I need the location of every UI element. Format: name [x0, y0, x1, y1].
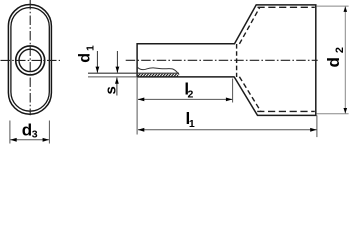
- dimension l2: right extension line: [232, 79, 234, 103]
- dimension l1: right arrowhead: [310, 128, 317, 132]
- front view: outer stadium outline: [8, 5, 51, 115]
- side view: axis centerline: [126, 59, 318, 61]
- side view: tube inner wall line (s extension): [88, 72, 179, 74]
- dimension l1: left arrowhead: [138, 128, 145, 132]
- side view: tube bottom outline: [137, 76, 235, 78]
- dimension d2: bottom arrowhead: [344, 108, 348, 114]
- collar: hidden funnel bottom slant (dashed): [239, 77, 260, 112]
- front view: wire hole outer circle: [16, 46, 45, 75]
- svg-text:l2: l2: [184, 80, 193, 101]
- dimension d3: dimension line: [10, 139, 49, 141]
- front view: inner stadium outline: [11, 8, 49, 112]
- dimension l2: dimension line: [138, 98, 232, 100]
- collar: hidden tube end (dashed vertical): [236, 44, 238, 77]
- front view: vertical centerline: [29, 0, 31, 115]
- svg-text:s: s: [103, 86, 120, 94]
- svg-text:d1: d1: [76, 45, 96, 63]
- dimension d2: top extension line: [317, 5, 349, 7]
- dimension d1: leader line: [96, 51, 98, 73]
- side view: break line (freehand) of broken-out section: [138, 67, 180, 74]
- dimension d1: arrowhead: [96, 67, 100, 73]
- dimension d3: right arrowhead: [43, 138, 50, 142]
- dimension s: upper leader: [116, 51, 118, 73]
- dimension d2: bottom extension line: [317, 113, 349, 115]
- dimension l1: dimension line: [138, 129, 317, 131]
- collar: hidden bore bottom line (dashed): [257, 110, 315, 112]
- side view: section hatch of tube wall: [136, 72, 192, 78]
- dimension l2: right arrowhead: [226, 98, 233, 102]
- dimension s: lower arrowhead: [115, 78, 119, 84]
- dimension s: upper arrowhead: [116, 67, 120, 73]
- dimension l1: right extension line (collar edge extended): [316, 115, 318, 137]
- dimension l2: left arrowhead: [138, 98, 145, 102]
- collar: hidden bore top line (dashed): [258, 6, 315, 8]
- dimension d3: right extension line: [48, 121, 50, 144]
- dimension s: lower leader: [116, 78, 118, 96]
- svg-text:l1: l1: [186, 109, 195, 130]
- svg-text:d2: d2: [324, 47, 346, 68]
- collar: solid outline (funnel and bell): [234, 5, 316, 116]
- side view: tube top outline: [137, 43, 235, 45]
- dimension l1: left extension line (tube edge extended): [136, 78, 138, 135]
- side view: tube left end edge: [136, 43, 138, 78]
- side view: tube bottom extension line: [88, 76, 137, 78]
- front view: wire hole inner circle: [19, 49, 41, 71]
- dimension d3: left extension line: [9, 121, 11, 144]
- dimension d2: dimension line: [344, 6, 346, 113]
- dimension d2: top arrowhead: [344, 6, 348, 11]
- front view: horizontal centerline: [1, 59, 61, 61]
- svg-text:d3: d3: [22, 120, 38, 140]
- dimension d3: left arrowhead: [10, 138, 17, 142]
- collar: hidden funnel top slant (dashed): [239, 7, 259, 44]
